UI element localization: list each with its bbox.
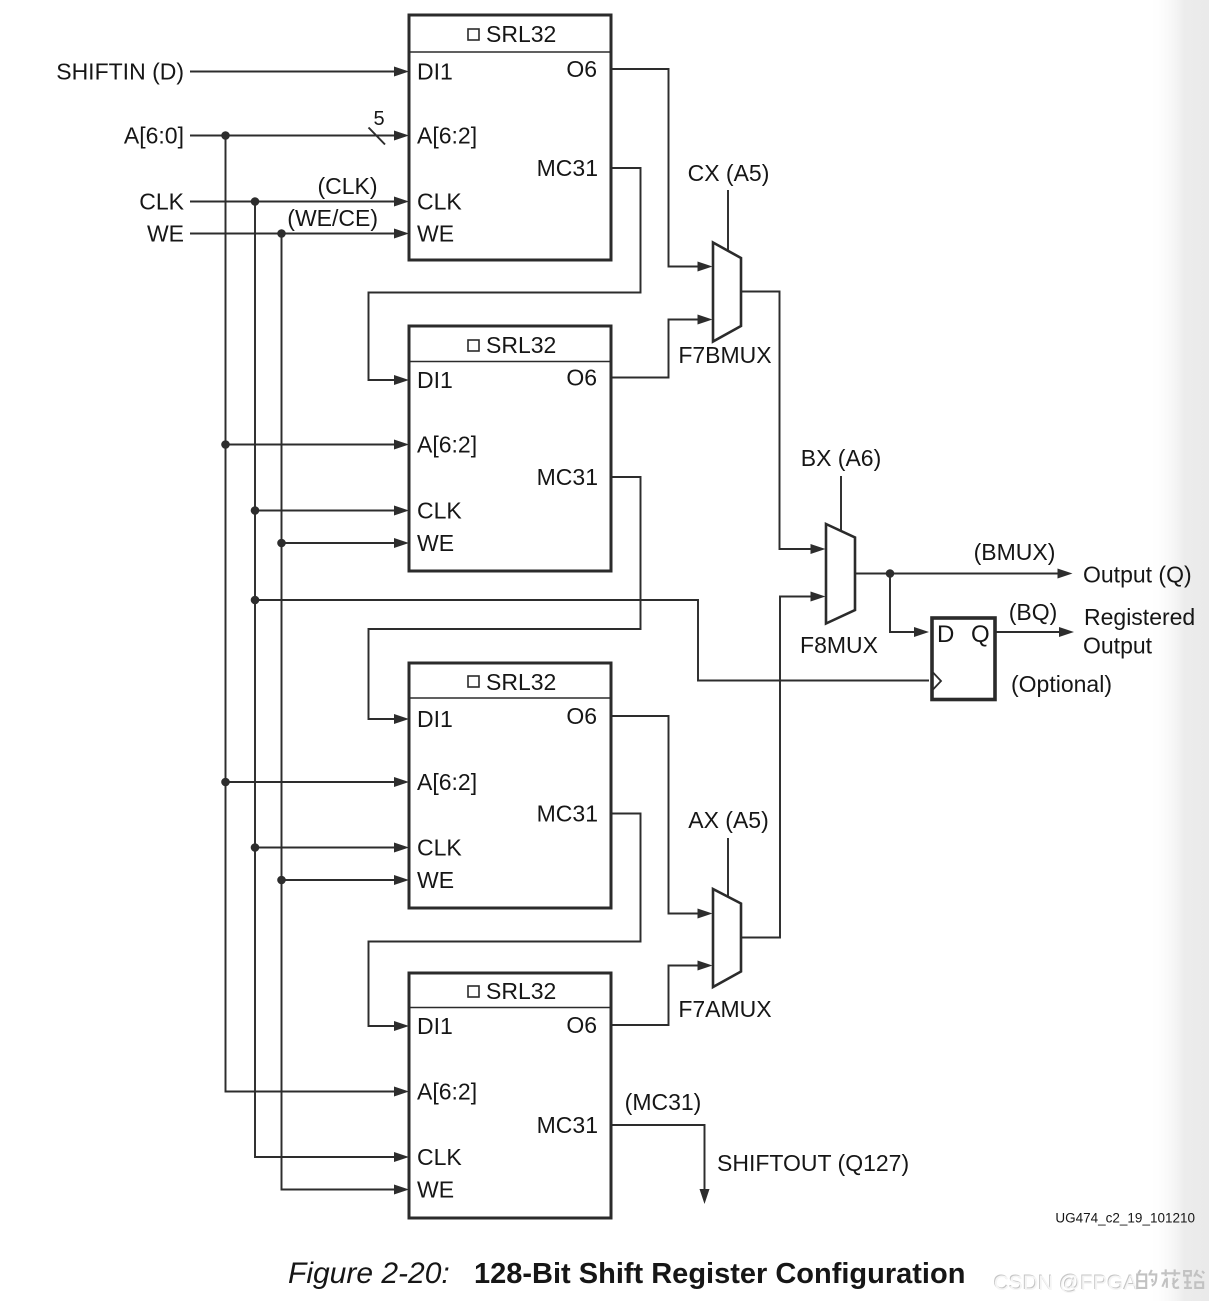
svg-text:MC31: MC31	[537, 1112, 598, 1138]
svg-text:SRL32: SRL32	[486, 21, 556, 47]
svg-text:(MC31): (MC31)	[625, 1089, 702, 1115]
svg-text:O6: O6	[566, 1012, 597, 1038]
SRL32 U1 box	[409, 15, 611, 260]
junction CLK tap to U1	[251, 197, 260, 206]
svg-text:Output (Q): Output (Q)	[1083, 562, 1192, 588]
svg-text:(BMUX): (BMUX)	[974, 539, 1056, 565]
svg-text:A[6:2]: A[6:2]	[417, 1079, 477, 1105]
svg-text:A[6:0]: A[6:0]	[124, 123, 184, 149]
svg-text:UG474_c2_19_101210: UG474_c2_19_101210	[1055, 1211, 1195, 1226]
arrowhead into U1 CLK	[394, 197, 409, 207]
SRL32 U2 box	[409, 326, 611, 571]
junction CLK tap to U2	[251, 506, 260, 515]
wire A[6:0] vertical bus to U4 A[6:2]	[226, 136, 397, 1092]
watermark glyph 花	[1161, 1269, 1180, 1287]
svg-text:(CLK): (CLK)	[317, 173, 377, 199]
svg-text:F7BMUX: F7BMUX	[678, 342, 771, 368]
wire F7AMUX output to F8MUX input 1	[741, 597, 812, 938]
arrowhead into U4 A[6:2]	[394, 1087, 409, 1097]
svg-text:MC31: MC31	[537, 801, 598, 827]
wire WE vertical bus to U4 WE	[282, 234, 397, 1190]
svg-text:128-Bit Shift Register Configu: 128-Bit Shift Register Configuration	[474, 1258, 965, 1290]
svg-text:SRL32: SRL32	[486, 332, 556, 358]
svg-text:CLK: CLK	[417, 498, 462, 524]
mux F8MUX	[800, 524, 878, 658]
wire WE branch to U2 WE	[282, 542, 397, 544]
svg-text:A[6:2]: A[6:2]	[417, 123, 477, 149]
SRL32 U3 box	[409, 663, 611, 908]
arrowhead into F7AMUX input 0	[698, 909, 713, 919]
wire CLK branch to U3 CLK	[255, 847, 396, 849]
svg-text:DI1: DI1	[417, 706, 453, 732]
wire WE branch to U3 WE	[282, 879, 397, 881]
svg-text:O6: O6	[566, 703, 597, 729]
wire A branch to U3 A[6:2]	[226, 781, 397, 783]
wire A branch to U2 A[6:2]	[226, 444, 397, 446]
U3 header square glyph	[468, 676, 479, 687]
arrowhead into U3 WE	[394, 875, 409, 885]
svg-text:WE: WE	[417, 1177, 454, 1203]
svg-text:WE: WE	[417, 867, 454, 893]
arrowhead into F8MUX input 1	[811, 592, 826, 602]
junction A[6:0] tap to U1	[221, 131, 230, 140]
svg-text:Registered: Registered	[1084, 604, 1195, 630]
mux F7AMUX	[678, 889, 771, 1022]
junction A tap to U3	[221, 778, 230, 787]
svg-text:D: D	[937, 621, 954, 648]
svg-text:WE: WE	[147, 221, 184, 247]
svg-text:CX (A5): CX (A5)	[688, 160, 770, 186]
arrowhead into U2 A[6:2]	[394, 440, 409, 450]
arrowhead into U1 A[6:2]	[394, 131, 409, 141]
svg-text:Q: Q	[971, 621, 990, 648]
arrowhead into U3 CLK	[394, 843, 409, 853]
junction BMUX output node	[886, 569, 895, 578]
watermark glyph 的	[1137, 1270, 1156, 1288]
svg-text:A[6:2]: A[6:2]	[417, 769, 477, 795]
wire branch from BMUX node to flip-flop D	[890, 574, 916, 633]
svg-text:DI1: DI1	[417, 1013, 453, 1039]
svg-text:A[6:2]: A[6:2]	[417, 432, 477, 458]
arrowhead into U1 DI1	[394, 67, 409, 77]
svg-text:CSDN @FPGA: CSDN @FPGA	[994, 1272, 1138, 1295]
arrowhead into U4 DI1	[394, 1021, 409, 1031]
svg-text:F8MUX: F8MUX	[800, 632, 878, 658]
wire U2 O6 to F7BMUX input 1	[611, 320, 699, 378]
arrowhead into U4 WE	[394, 1185, 409, 1195]
wire WE input to U1 WE	[190, 233, 396, 235]
wire CLK branch to flip-flop clock	[255, 600, 929, 681]
wire F7BMUX output to F8MUX input 0	[741, 292, 812, 550]
svg-text:SRL32: SRL32	[486, 669, 556, 695]
watermark glyph 路	[1184, 1270, 1204, 1288]
arrowhead into U3 DI1	[394, 714, 409, 724]
junction A tap to U2	[221, 440, 230, 449]
junction CLK tap to U3	[251, 843, 260, 852]
wire U1 MC31 to U2 DI1	[369, 168, 641, 380]
svg-text:F7AMUX: F7AMUX	[678, 996, 771, 1022]
flip-flop clock triangle	[933, 673, 941, 690]
svg-text:CLK: CLK	[417, 1144, 462, 1170]
junction CLK tap to flip-flop	[251, 596, 260, 605]
arrowhead Registered Output	[1059, 627, 1074, 637]
svg-text:MC31: MC31	[537, 464, 598, 490]
svg-text:WE: WE	[417, 221, 454, 247]
SRL32 U4 box	[409, 973, 611, 1218]
wire BX (A6) select into F8MUX	[840, 476, 842, 532]
arrowhead into F7BMUX input 0	[698, 262, 713, 272]
svg-text:Figure 2-20:: Figure 2-20:	[288, 1257, 450, 1290]
watermark CSDN @FPGA的花路	[993, 1271, 1138, 1295]
wire U2 MC31 to U3 DI1	[369, 477, 641, 719]
svg-text:(WE/CE): (WE/CE)	[287, 205, 378, 231]
wire CLK input to U1 CLK	[190, 201, 396, 203]
bus width slash on A[6:2] wire	[369, 128, 386, 145]
svg-text:5: 5	[373, 108, 384, 130]
arrowhead into F8MUX input 0	[811, 544, 826, 554]
svg-text:(Optional): (Optional)	[1011, 671, 1112, 697]
wire flip-flop Q to Registered Output	[995, 631, 1059, 633]
wire U4 MC31 to SHIFTOUT (Q127)	[611, 1125, 705, 1190]
arrowhead into U2 CLK	[394, 506, 409, 516]
svg-text:DI1: DI1	[417, 367, 453, 393]
junction WE tap to U1	[277, 229, 286, 238]
svg-text:BX (A6): BX (A6)	[801, 445, 882, 471]
svg-text:SRL32: SRL32	[486, 978, 556, 1004]
svg-text:AX (A5): AX (A5)	[688, 807, 769, 833]
wire U3 O6 to F7AMUX input 0	[611, 716, 699, 914]
svg-text:SHIFTOUT (Q127): SHIFTOUT (Q127)	[717, 1150, 909, 1176]
arrowhead into U2 WE	[394, 538, 409, 548]
svg-text:Output: Output	[1083, 633, 1153, 659]
svg-text:SHIFTIN (D): SHIFTIN (D)	[56, 59, 184, 85]
svg-text:CLK: CLK	[417, 835, 462, 861]
arrowhead SHIFTOUT down	[700, 1189, 710, 1204]
arrowhead into F7AMUX input 1	[698, 961, 713, 971]
wire CLK vertical bus to U4 CLK	[255, 202, 396, 1158]
svg-text:DI1: DI1	[417, 59, 453, 85]
wire SHIFTIN (D) input to U1 DI1	[190, 71, 396, 73]
svg-text:O6: O6	[566, 56, 597, 82]
arrowhead into flip-flop D	[914, 627, 929, 637]
wire U1 O6 to F7BMUX input 0	[611, 69, 699, 267]
svg-text:MC31: MC31	[537, 155, 598, 181]
arrowhead into U1 WE	[394, 229, 409, 239]
arrowhead into U3 A[6:2]	[394, 777, 409, 787]
U2 header square glyph	[468, 340, 479, 351]
U4 header square glyph	[468, 986, 479, 997]
wire AX (A5) select into F7AMUX	[727, 838, 729, 897]
junction WE tap to U2	[277, 539, 286, 548]
wire CLK branch to U2 CLK	[255, 510, 396, 512]
junction WE tap to U3	[277, 876, 286, 885]
flip-flop (optional register)	[932, 618, 995, 700]
svg-text:(BQ): (BQ)	[1009, 599, 1058, 625]
svg-text:O6: O6	[566, 365, 597, 391]
wire CX (A5) select into F7BMUX	[727, 190, 729, 251]
arrowhead into F7BMUX input 1	[698, 315, 713, 325]
arrowhead into U4 CLK	[394, 1152, 409, 1162]
wire U4 O6 to F7AMUX input 1	[611, 966, 699, 1026]
arrowhead Output (Q)	[1058, 569, 1073, 579]
svg-text:WE: WE	[417, 530, 454, 556]
mux F7BMUX	[678, 243, 771, 369]
wire F8MUX output to Output (Q)	[855, 573, 1058, 575]
svg-text:CLK: CLK	[139, 189, 184, 215]
svg-text:CLK: CLK	[417, 189, 462, 215]
U1 header square glyph	[468, 29, 479, 40]
wire A[6:0] input to U1 A[6:2]	[190, 135, 396, 137]
wire U3 MC31 to U4 DI1	[369, 814, 641, 1027]
arrowhead into U2 DI1	[394, 375, 409, 385]
